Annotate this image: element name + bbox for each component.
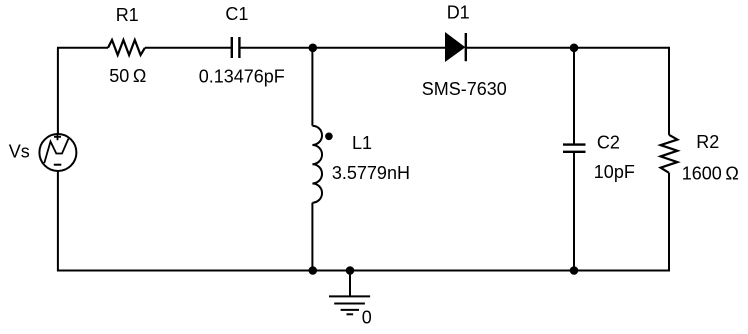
wire right branch top <box>668 47 670 135</box>
source Vs circle <box>39 134 76 171</box>
source Vs wire bottom <box>57 171 59 272</box>
resistor R1 <box>108 40 145 55</box>
svg-text:0.13476pF: 0.13476pF <box>199 66 285 86</box>
wire C2 branch bottom <box>573 153 575 271</box>
ground bars <box>329 295 370 297</box>
svg-text:R1: R1 <box>116 5 139 25</box>
wire L1 branch bottom <box>311 203 313 271</box>
ground stub <box>349 271 351 297</box>
node junction C2 top <box>570 44 579 53</box>
wire C2 branch top <box>573 48 575 144</box>
wire R1 to C1 <box>145 47 231 49</box>
inductor L1 <box>312 126 322 203</box>
svg-text:C2: C2 <box>597 133 620 153</box>
wire bottom rail <box>57 270 670 272</box>
wire D1 to right corner <box>466 47 669 49</box>
svg-text:R2: R2 <box>696 132 719 152</box>
node junction C2 bottom <box>570 266 579 275</box>
wire right branch bottom <box>668 173 670 272</box>
svg-text:SMS-7630: SMS-7630 <box>422 79 507 99</box>
svg-text:1600 Ω: 1600 Ω <box>682 163 739 183</box>
svg-text:3.5779nH: 3.5779nH <box>332 163 410 183</box>
wire C1 to D1 <box>240 47 445 49</box>
node junction L1 bottom <box>309 266 318 275</box>
node junction L1 top <box>309 44 318 53</box>
wire L1 branch top <box>311 48 313 126</box>
svg-text:50 Ω: 50 Ω <box>109 66 146 86</box>
capacitor C2 <box>563 143 586 145</box>
diode D1 <box>446 33 465 61</box>
node junction ground <box>346 266 355 275</box>
svg-text:C1: C1 <box>225 4 248 24</box>
source Vs waveform <box>44 139 68 164</box>
svg-text:0: 0 <box>362 308 372 328</box>
resistor R2 <box>661 135 678 173</box>
svg-text:10pF: 10pF <box>594 162 635 182</box>
source Vs wire top <box>57 48 59 135</box>
source Vs plus <box>54 133 61 140</box>
source Vs minus <box>54 164 62 166</box>
capacitor C1 <box>231 37 233 58</box>
svg-text:D1: D1 <box>447 2 470 22</box>
svg-text:L1: L1 <box>352 133 372 153</box>
polarity dot L1 <box>325 133 333 141</box>
wire top rail left segment <box>57 47 108 49</box>
svg-text:Vs: Vs <box>9 142 30 162</box>
